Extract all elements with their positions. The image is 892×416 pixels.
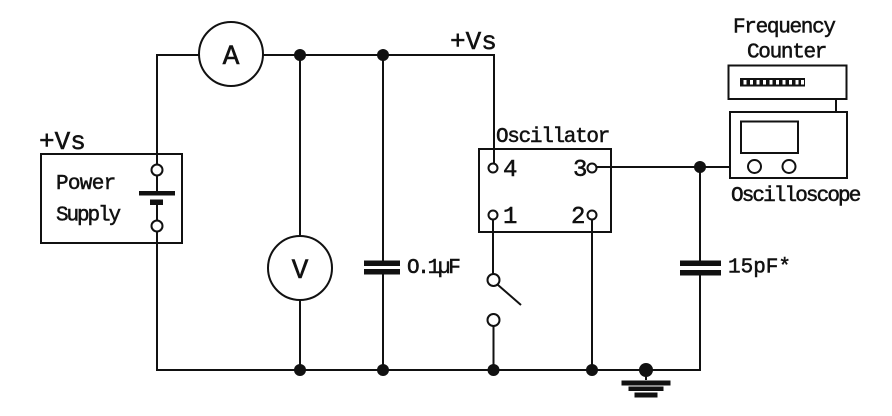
capacitor C2 bottom plate [680,270,721,276]
battery B1 bottom terminal [152,221,163,232]
svg-text:Frequency: Frequency [733,17,835,40]
svg-text:1: 1 [503,204,517,231]
svg-text:Oscilloscope: Oscilloscope [731,185,861,208]
oscilloscope knob 1 [748,160,761,173]
svg-text:+Vs: +Vs [450,27,497,57]
switch S1 blade [498,285,521,305]
svg-text:+Vs: +Vs [39,127,86,157]
oscilloscope box [730,112,847,178]
svg-text:V: V [292,256,309,287]
svg-text:3: 3 [573,157,587,184]
oscillator U1 box [479,149,611,232]
capacitor C2 top plate [680,261,721,267]
wire: battery internal top [156,174,158,192]
oscilloscope knob 2 [783,160,796,173]
wire: voltmeter drop from top rail [299,55,301,236]
wire: battery internal bottom [156,204,158,222]
pin 2 circle [588,211,597,220]
node: bottom rail junction under voltmeter [294,364,306,376]
capacitor C1 bottom plate [364,269,400,275]
wire: top rail right of ammeter to +Vs corner [262,54,494,56]
wire: junction down to capacitor C2 [699,167,701,261]
svg-text:2: 2 [571,204,585,231]
battery B1 negative plate [150,200,163,206]
node: top rail junction 1 [294,49,306,61]
svg-text:4: 4 [503,157,517,184]
frequency counter display segments [740,78,805,87]
wire: top rail left segment [157,54,200,56]
wire: left vertical from top rail to power supply [156,54,158,165]
wire: bottom rail [156,369,701,371]
node: junction on pin3 wire [694,161,706,173]
pin 4 circle [489,164,498,173]
node: bottom rail junction under C1 [377,364,389,376]
wire: frequency counter to oscilloscope link [835,99,837,112]
svg-text:Counter: Counter [747,42,826,65]
node: bottom rail junction under pin 2 [586,364,598,376]
capacitor C1 top plate [364,261,400,267]
wire: pin 1 to switch [492,219,494,274]
svg-text:Power: Power [56,173,116,196]
wire: capacitor C2 to bottom rail corner [699,275,701,371]
wire: +Vs drop to oscillator pin 4 [493,54,495,164]
switch S1 upper contact [488,274,500,286]
voltmeter V1 [268,236,332,300]
node: ground junction [639,363,653,377]
switch S1 lower contact [488,314,500,326]
wire: power supply bottom to bottom rail [156,231,158,371]
node: top rail junction 2 [377,49,389,61]
node: bottom rail junction under switch [488,364,500,376]
svg-text:A: A [223,42,240,73]
pin 3 circle [588,164,597,173]
power supply box [41,154,182,243]
svg-text:15pF*: 15pF* [728,257,791,280]
svg-text:O.1µF: O.1µF [407,257,460,280]
wire: pin 3 to oscilloscope [596,166,730,168]
battery B1 positive plate [139,191,175,196]
wire: voltmeter to bottom rail [299,300,301,370]
wire: switch to bottom rail [493,326,495,370]
svg-text:Supply: Supply [56,205,121,228]
wire: capacitor C1 to bottom rail [382,274,384,370]
wire: capacitor C1 drop from top rail [382,55,384,261]
pin 1 circle [489,211,498,220]
battery B1 top terminal [152,165,163,176]
ground symbol [645,370,647,380]
svg-text:Oscillator: Oscillator [496,126,609,149]
ammeter A1 [199,22,263,86]
frequency counter box [729,66,847,100]
wire: pin 2 to bottom rail [591,219,593,370]
oscilloscope screen [741,122,798,154]
